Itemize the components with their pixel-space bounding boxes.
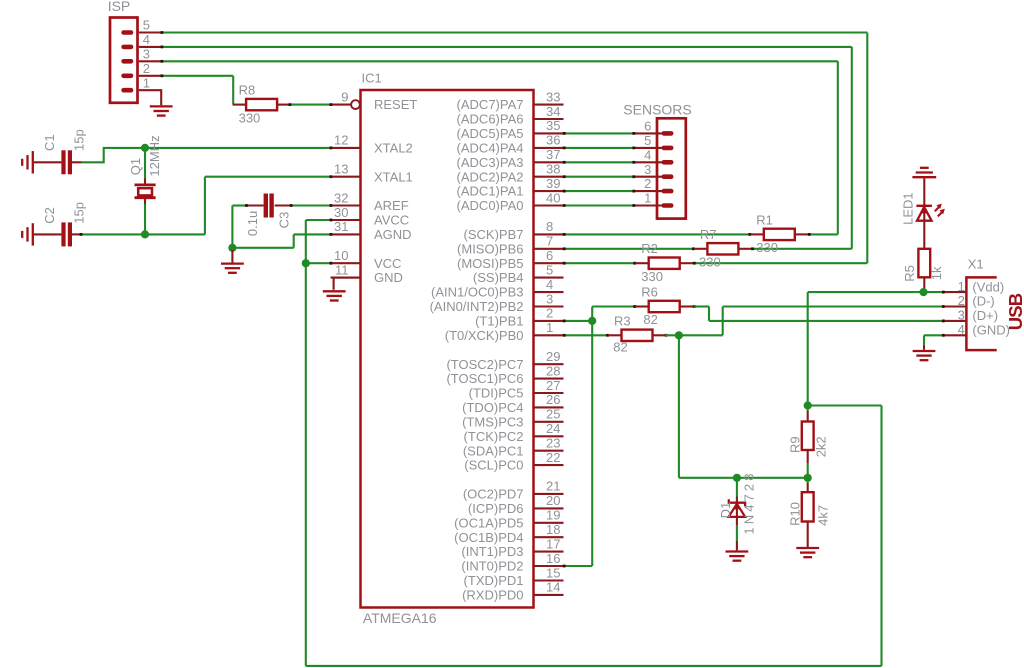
svg-text:30: 30	[334, 205, 348, 220]
svg-text:3: 3	[143, 46, 150, 61]
diode D1 1N4728 zener	[729, 478, 746, 551]
svg-text:17: 17	[546, 536, 560, 551]
SENSORS pin 6	[635, 119, 674, 136]
IC1 pin 37 (ADC3)PA3	[457, 147, 564, 170]
svg-text:X1: X1	[968, 256, 984, 271]
svg-text:GND: GND	[374, 270, 403, 285]
svg-text:39: 39	[546, 176, 560, 191]
svg-text:(ADC0)PA0: (ADC0)PA0	[457, 198, 524, 213]
IC1 pin 33 (ADC7)PA7	[457, 89, 564, 112]
supply VCC symbol above LED1	[912, 168, 936, 177]
IC1 pin 40 (ADC0)PA0	[457, 190, 564, 213]
IC1 pin 14 (RXD)PD0	[462, 580, 563, 603]
svg-text:9: 9	[341, 89, 348, 104]
svg-text:5: 5	[143, 18, 150, 33]
resistor R10 4k7	[802, 478, 814, 547]
svg-text:(RXD)PD0: (RXD)PD0	[462, 588, 523, 603]
wire D- net up to X1 pin2	[679, 305, 945, 335]
IC1 pin 10 VCC	[331, 248, 402, 271]
SENSORS pin 2	[635, 176, 674, 193]
svg-text:14: 14	[546, 580, 560, 595]
svg-text:3: 3	[958, 308, 965, 323]
wire PA3 to SENSORS pin 4	[563, 161, 635, 164]
svg-text:R9: R9	[788, 436, 803, 453]
IC1 pin 12 XTAL2	[331, 133, 413, 156]
wire PB0 to R3	[563, 334, 609, 337]
IC1 pin 35 (ADC5)PA5	[457, 118, 564, 141]
svg-text:AREF: AREF	[374, 198, 409, 213]
IC1 pin 11 GND	[331, 262, 403, 285]
wire XTAL1 net (C2, Q1 bottom, IC pin13)	[82, 175, 333, 234]
svg-text:RESET: RESET	[374, 97, 417, 112]
wire Vdd net from X1 pin1 to R9 top	[808, 291, 945, 406]
ISP pin 1	[121, 75, 161, 92]
svg-text:10: 10	[334, 248, 348, 263]
svg-text:33: 33	[546, 89, 560, 104]
svg-text:(SCL)PC0: (SCL)PC0	[464, 458, 523, 473]
node VCC junction	[302, 259, 310, 267]
svg-text:R3: R3	[614, 313, 631, 328]
node D1 junction	[733, 474, 741, 482]
svg-text:6: 6	[644, 119, 651, 134]
ground at R10	[796, 548, 819, 557]
svg-text:(ADC1)PA1: (ADC1)PA1	[457, 184, 524, 199]
svg-text:5: 5	[644, 133, 651, 148]
svg-text:(ADC6)PA6: (ADC6)PA6	[457, 112, 524, 127]
svg-text:330: 330	[699, 255, 721, 270]
svg-text:(T0/XCK)PB0: (T0/XCK)PB0	[445, 328, 524, 343]
connector X1 USB box	[966, 277, 996, 350]
svg-text:4: 4	[143, 32, 150, 47]
svg-text:24: 24	[546, 421, 560, 436]
svg-text:82: 82	[643, 312, 657, 327]
svg-text:35: 35	[546, 118, 560, 133]
svg-text:25: 25	[546, 407, 560, 422]
svg-text:(TDO)PC4: (TDO)PC4	[462, 400, 523, 415]
IC1 pin 5 (SS)PB4	[473, 262, 564, 285]
svg-text:(INT1)PD3: (INT1)PD3	[461, 544, 523, 559]
svg-text:5: 5	[546, 262, 553, 277]
connector SENSORS box	[657, 118, 686, 218]
wire PA0 to SENSORS pin 1	[563, 204, 635, 207]
svg-text:8: 8	[546, 219, 553, 234]
IC1 pin 6 (MOSI)PB5	[457, 248, 563, 271]
svg-text:R5: R5	[902, 265, 917, 282]
svg-text:23: 23	[546, 436, 560, 451]
LED LED1	[916, 178, 944, 248]
svg-text:ATMEGA16: ATMEGA16	[363, 610, 437, 626]
SENSORS pin 5	[635, 133, 674, 150]
svg-text:(OC1B)PD4: (OC1B)PD4	[454, 530, 523, 545]
ground at C3	[221, 250, 244, 273]
node R3/D- junction	[675, 331, 683, 339]
svg-text:(SS)PB4: (SS)PB4	[473, 270, 524, 285]
wire ISP pin5 to R2 (MOSI net)	[161, 31, 868, 263]
IC1 pin 25 (TMS)PC3	[462, 407, 563, 430]
wire R3 right to junction	[665, 334, 679, 337]
IC1 pin 23 (SDA)PC1	[463, 436, 564, 459]
IC1 pin 18 (OC1B)PD4	[454, 522, 563, 545]
svg-text:2: 2	[143, 61, 150, 76]
svg-text:16: 16	[546, 551, 560, 566]
resistor R6 82	[635, 285, 693, 313]
node XTAL2 junction	[141, 144, 149, 152]
wire PB6 to R7	[563, 247, 695, 250]
svg-text:SENSORS: SENSORS	[623, 101, 691, 117]
svg-text:(AIN1/OC0)PB3: (AIN1/OC0)PB3	[431, 285, 523, 300]
wire R6 right to X1 D+ (jog)	[693, 305, 945, 322]
ISP pin 2	[121, 61, 161, 78]
IC1 pin 7 (MISO)PB6	[457, 234, 563, 257]
wire IC GND pin11 to ground	[334, 278, 361, 290]
svg-text:330: 330	[756, 240, 778, 255]
svg-text:1N4728: 1N4728	[742, 470, 757, 534]
svg-text:38: 38	[546, 162, 560, 177]
svg-text:3: 3	[644, 162, 651, 177]
svg-text:(ICP)PD6: (ICP)PD6	[468, 501, 524, 516]
svg-text:Q1: Q1	[128, 158, 143, 175]
ground at C2	[22, 223, 33, 245]
svg-text:(AIN0/INT2)PB2: (AIN0/INT2)PB2	[430, 299, 524, 314]
resistor R2 330	[635, 241, 693, 269]
svg-text:(ADC2)PA2: (ADC2)PA2	[457, 169, 524, 184]
svg-text:1: 1	[546, 320, 553, 335]
X1 pin 2 (D-)	[944, 293, 995, 309]
svg-text:AGND: AGND	[374, 227, 412, 242]
svg-text:(TOSC2)PC7: (TOSC2)PC7	[446, 357, 523, 372]
IC1 pin 28 (TOSC1)PC6	[446, 363, 563, 386]
X1 pin 3 (D+)	[944, 308, 998, 324]
IC1 pin 15 (TXD)PD1	[464, 565, 564, 588]
svg-text:1: 1	[644, 191, 651, 206]
IC1 pin 13 XTAL1	[331, 162, 413, 185]
IC1 pin 26 (TDO)PC4	[462, 392, 563, 415]
svg-text:R6: R6	[641, 285, 658, 300]
capacitor C3 0.1u	[247, 194, 291, 218]
wire PB5 to R2	[563, 262, 636, 265]
resistor R5 1k	[918, 249, 930, 292]
IC1 pin 2 (T1)PB1	[475, 306, 563, 329]
svg-text:1: 1	[143, 75, 150, 90]
capacitor C1 15p	[34, 150, 82, 174]
svg-text:2: 2	[958, 293, 965, 308]
svg-text:32: 32	[334, 190, 348, 205]
wire R8 to RESET pin	[289, 103, 333, 106]
svg-text:34: 34	[546, 104, 560, 119]
svg-text:28: 28	[546, 363, 560, 378]
svg-text:(T1)PB1: (T1)PB1	[475, 314, 523, 329]
svg-text:R10: R10	[788, 502, 803, 526]
IC IC1 ATMEGA16 box	[361, 90, 534, 608]
svg-text:(ADC3)PA3: (ADC3)PA3	[457, 155, 524, 170]
svg-text:(MOSI)PB5: (MOSI)PB5	[457, 256, 523, 271]
IC1 pin 9 RESET	[331, 89, 418, 112]
wire C3 right to AREF	[290, 204, 333, 207]
svg-text:XTAL2: XTAL2	[374, 141, 413, 156]
svg-text:330: 330	[239, 110, 261, 125]
node PB1 junction	[588, 317, 596, 325]
svg-text:2: 2	[546, 306, 553, 321]
svg-text:7: 7	[546, 234, 553, 249]
IC1 pin 38 (ADC2)PA2	[457, 162, 564, 185]
ISP pin 4	[121, 32, 161, 49]
node AGND junction	[228, 244, 236, 252]
svg-text:ISP: ISP	[108, 0, 131, 14]
svg-text:18: 18	[546, 522, 560, 537]
IC1 pin 21 (OC2)PD7	[463, 479, 564, 502]
svg-text:4: 4	[644, 147, 651, 162]
svg-text:11: 11	[335, 262, 349, 277]
svg-text:40: 40	[546, 190, 560, 205]
node XTAL1 junction	[141, 230, 149, 238]
IC1 pin 24 (TCK)PC2	[464, 421, 564, 444]
wire R2 to ISP vertical	[693, 262, 696, 265]
wire PB1 to junction	[563, 320, 592, 323]
svg-text:(SDA)PC1: (SDA)PC1	[463, 443, 524, 458]
IC1 pin 1 (T0/XCK)PB0	[445, 320, 564, 343]
svg-text:31: 31	[334, 219, 348, 234]
svg-text:(TDI)PC5: (TDI)PC5	[469, 386, 524, 401]
svg-text:R2: R2	[641, 241, 658, 256]
svg-text:(MISO)PB6: (MISO)PB6	[457, 241, 523, 256]
IC1 pin 34 (ADC6)PA6	[457, 104, 564, 127]
svg-text:15p: 15p	[71, 129, 86, 151]
svg-text:1: 1	[958, 279, 965, 294]
svg-text:(D-): (D-)	[972, 294, 994, 309]
resistor R8 330	[233, 83, 291, 111]
svg-text:22: 22	[546, 450, 560, 465]
svg-text:R8: R8	[239, 83, 256, 98]
resistor R3 82	[608, 313, 666, 341]
svg-text:20: 20	[546, 493, 560, 508]
svg-text:R7: R7	[700, 227, 717, 242]
svg-text:15p: 15p	[71, 202, 86, 224]
SENSORS pin 4	[635, 147, 674, 164]
IC1 pin 8 (SCK)PB7	[464, 219, 564, 242]
crystal Q1 12MHz	[135, 185, 156, 198]
wire PA1 to SENSORS pin 2	[563, 190, 635, 193]
wire XTAL2 net (C1, Q1 top, IC pin12)	[82, 147, 333, 163]
X1 pin 4 (GND)	[944, 322, 1010, 338]
svg-text:(OC1A)PD5: (OC1A)PD5	[454, 515, 523, 530]
wire PA4 to SENSORS pin 5	[563, 147, 635, 150]
wire ISP pin2 to R8 (RESET net)	[161, 74, 234, 104]
wire Q1 top	[144, 148, 146, 184]
svg-text:(ADC4)PA4: (ADC4)PA4	[457, 141, 524, 156]
wire R1 to ISP vertical	[808, 233, 811, 236]
IC1 pin 3 (AIN0/INT2)PB2	[430, 291, 564, 314]
wire Q1 bottom	[144, 199, 146, 234]
wire INT0/PD2 to PB1 junction vertical	[563, 307, 592, 568]
wire PA2 to SENSORS pin 3	[563, 175, 635, 178]
svg-text:21: 21	[546, 479, 560, 494]
wire PB7 to R1	[563, 233, 751, 236]
IC1 pin 19 (OC1A)PD5	[454, 508, 563, 531]
svg-text:19: 19	[546, 508, 560, 523]
wire ISP pin3 to R1 (SCK net)	[161, 60, 838, 235]
svg-text:(SCK)PB7: (SCK)PB7	[464, 227, 524, 242]
IC1 pin 30 AVCC	[331, 205, 410, 228]
wire R6 left	[592, 305, 636, 308]
IC1 pin 16 (INT0)PD2	[461, 551, 563, 574]
svg-text:12: 12	[334, 133, 348, 148]
IC1 pin 39 (ADC1)PA1	[457, 176, 564, 199]
IC1 pin 20 (ICP)PD6	[468, 493, 564, 516]
svg-text:C2: C2	[42, 207, 57, 224]
svg-text:(TMS)PC3: (TMS)PC3	[462, 414, 523, 429]
svg-text:1k: 1k	[929, 266, 944, 280]
svg-text:XTAL1: XTAL1	[374, 169, 413, 184]
node R5 junction on Vdd	[919, 288, 927, 296]
svg-text:4: 4	[958, 322, 965, 337]
IC1 pin 36 (ADC4)PA4	[457, 133, 564, 156]
svg-text:330: 330	[641, 269, 663, 284]
resistor R1 330	[750, 212, 808, 240]
svg-text:(D+): (D+)	[972, 308, 998, 323]
node R9 top junction	[804, 401, 812, 409]
wire AVCC/VCC net (left tall vertical and bottom loop)	[306, 219, 882, 666]
svg-text:D1: D1	[718, 502, 733, 519]
connector ISP box	[110, 18, 138, 103]
X1 pin 1 (Vdd)	[944, 279, 1004, 295]
svg-text:2k2: 2k2	[814, 436, 829, 457]
svg-text:(ADC5)PA5: (ADC5)PA5	[457, 126, 524, 141]
SENSORS pin 1	[635, 191, 674, 208]
svg-text:2: 2	[644, 176, 651, 191]
svg-text:0.1u: 0.1u	[245, 211, 260, 236]
svg-text:(GND): (GND)	[972, 323, 1010, 338]
IC1 pin 17 (INT1)PD3	[461, 536, 563, 559]
wire ISP pin4 to R7 (MISO net)	[161, 46, 852, 249]
svg-text:27: 27	[546, 378, 560, 393]
ground at D1	[726, 552, 749, 561]
ground at X1	[913, 351, 936, 360]
svg-text:(INT0)PD2: (INT0)PD2	[461, 559, 523, 574]
wire PA5 to SENSORS pin 6	[563, 132, 635, 135]
ISP pin 5	[121, 18, 161, 35]
svg-text:VCC: VCC	[374, 256, 401, 271]
svg-text:C1: C1	[42, 134, 57, 151]
IC1 pin 27 (TDI)PC5	[469, 378, 564, 401]
IC1 pin 29 (TOSC2)PC7	[446, 349, 563, 372]
resistor R7 330	[694, 227, 752, 255]
svg-text:26: 26	[546, 392, 560, 407]
IC1 pin 22 (SCL)PC0	[464, 450, 563, 473]
svg-text:4k7: 4k7	[816, 505, 831, 526]
svg-text:36: 36	[546, 133, 560, 148]
ground at IC GND	[323, 291, 346, 300]
svg-text:12MHz: 12MHz	[147, 135, 162, 176]
wire ISP pin1 to ground	[160, 89, 162, 105]
svg-text:3: 3	[546, 291, 553, 306]
svg-text:(TOSC1)PC6: (TOSC1)PC6	[446, 371, 523, 386]
SENSORS pin 3	[635, 162, 674, 179]
svg-text:37: 37	[546, 147, 560, 162]
svg-text:IC1: IC1	[362, 71, 382, 86]
node R9 bottom junction	[804, 474, 812, 482]
svg-text:AVCC: AVCC	[374, 213, 409, 228]
ground at ISP pin1	[150, 106, 173, 115]
wire R7 to ISP vertical	[751, 247, 754, 250]
svg-text:(TXD)PD1: (TXD)PD1	[464, 573, 524, 588]
svg-text:(TCK)PC2: (TCK)PC2	[464, 429, 524, 444]
svg-text:R1: R1	[756, 212, 773, 227]
ISP pin 3	[121, 46, 161, 63]
wire D- net down to D1/R9/R10 row	[679, 335, 808, 478]
svg-text:(ADC7)PA7: (ADC7)PA7	[457, 97, 524, 112]
svg-text:LED1: LED1	[900, 192, 915, 225]
svg-text:6: 6	[546, 248, 553, 263]
capacitor C2 15p	[34, 222, 83, 246]
resistor R9 2k2	[802, 406, 814, 478]
svg-text:82: 82	[613, 340, 627, 355]
svg-text:4: 4	[546, 277, 553, 292]
wire X1 GND pin to ground	[924, 334, 945, 350]
svg-text:C3: C3	[277, 212, 292, 229]
IC1 pin 32 AREF	[331, 190, 409, 213]
wire C3 left down to AGND net	[232, 204, 332, 248]
svg-text:(OC2)PD7: (OC2)PD7	[463, 487, 524, 502]
svg-text:15: 15	[546, 565, 560, 580]
svg-text:(Vdd): (Vdd)	[972, 279, 1004, 294]
svg-text:13: 13	[334, 162, 348, 177]
IC1 pin 4 (AIN1/OC0)PB3	[431, 277, 563, 300]
IC1 pin 31 AGND	[331, 219, 412, 242]
ground at C1	[22, 151, 33, 173]
svg-text:29: 29	[546, 349, 560, 364]
